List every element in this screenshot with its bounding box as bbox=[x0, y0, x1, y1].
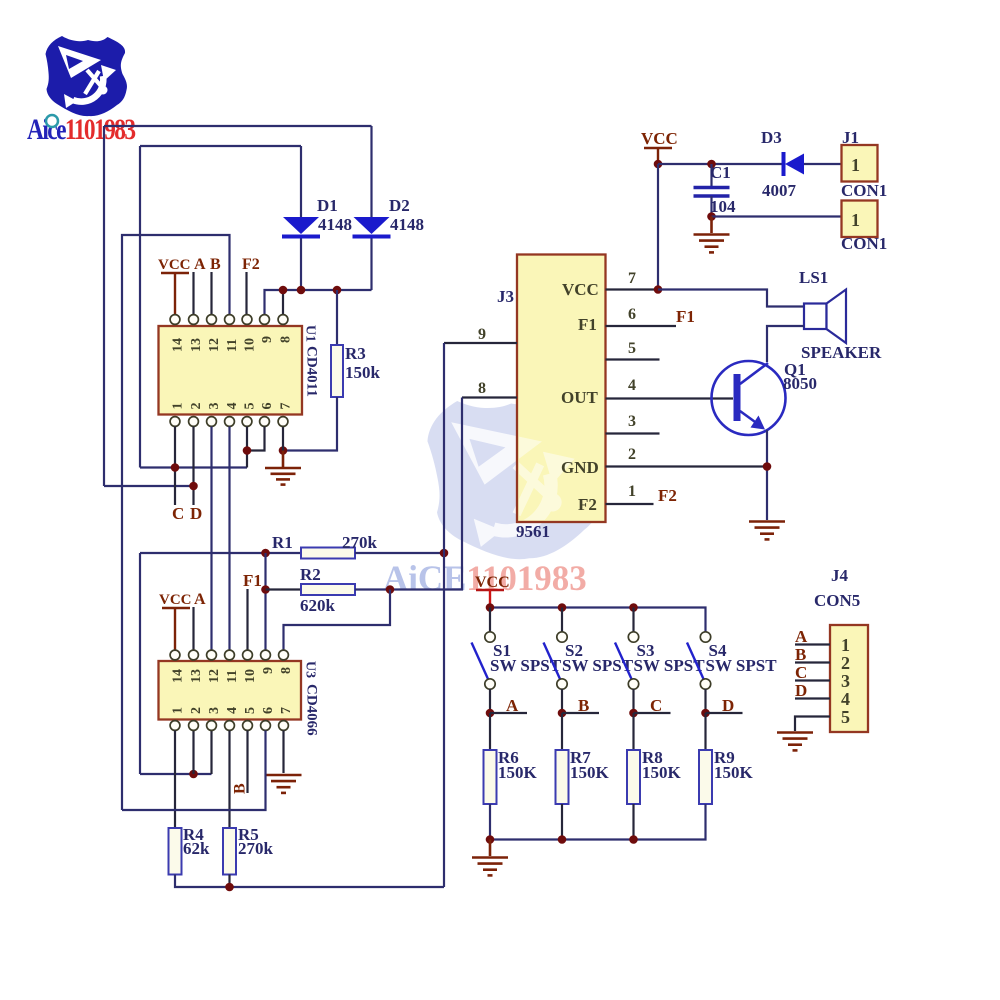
svg-text:B: B bbox=[232, 783, 249, 794]
node junction D bbox=[701, 709, 710, 718]
wire U3 pin3 stub bbox=[210, 731, 212, 775]
svg-text:1: 1 bbox=[851, 210, 860, 230]
svg-text:D2: D2 bbox=[389, 196, 410, 215]
svg-text:R2: R2 bbox=[300, 565, 321, 584]
node junction C1 bottom bbox=[707, 212, 716, 221]
svg-text:5: 5 bbox=[841, 707, 850, 727]
wire U1 pin11 to net-B vertical bbox=[122, 235, 230, 810]
svg-text:3: 3 bbox=[628, 413, 636, 430]
resistor R1 bbox=[301, 548, 355, 559]
wire J3 pin9 line bbox=[444, 342, 517, 344]
IC U1 CD4011 bbox=[159, 315, 303, 427]
node junction A bbox=[486, 709, 495, 718]
wire C1 bottom to J1 lower bbox=[712, 215, 842, 217]
node junction U1 pin1 on net-C bbox=[171, 463, 180, 472]
capacitor C1 bbox=[694, 164, 730, 217]
wire node C tick bbox=[634, 712, 671, 714]
wire J3 pin2 line bbox=[606, 465, 768, 467]
svg-text:J3: J3 bbox=[497, 287, 514, 306]
svg-text:12: 12 bbox=[207, 669, 222, 683]
wire F1 stub to U3 pin10 bbox=[246, 589, 248, 650]
svg-text:2: 2 bbox=[189, 403, 204, 410]
node junction R2 left bbox=[261, 585, 270, 594]
node junction U1 pin7 bbox=[279, 446, 288, 455]
wire U1 pin7 stub bbox=[282, 427, 284, 451]
svg-text:13: 13 bbox=[189, 338, 204, 352]
svg-text:VCC: VCC bbox=[641, 129, 678, 148]
svg-text:1: 1 bbox=[171, 403, 186, 410]
wire S2 to R7 bbox=[561, 713, 563, 750]
svg-text:1: 1 bbox=[628, 483, 636, 500]
svg-text:7: 7 bbox=[279, 403, 294, 410]
svg-text:4007: 4007 bbox=[762, 181, 797, 200]
svg-text:A: A bbox=[194, 256, 206, 273]
svg-text:6: 6 bbox=[628, 306, 636, 323]
svg-text:6: 6 bbox=[261, 707, 276, 714]
svg-text:13: 13 bbox=[189, 669, 204, 683]
logo diymore shield bbox=[46, 36, 128, 116]
svg-text:C: C bbox=[172, 504, 184, 523]
wire node D tick bbox=[706, 712, 743, 714]
svg-text:62k: 62k bbox=[183, 839, 210, 858]
wire D3 to J1 bbox=[804, 163, 842, 165]
IC U3 CD4066 bbox=[159, 650, 302, 730]
wire R8 bottom stub bbox=[632, 804, 634, 840]
svg-text:1: 1 bbox=[851, 155, 860, 175]
node junction C bbox=[629, 709, 638, 718]
svg-text:F1: F1 bbox=[578, 315, 597, 334]
wire R5 bottom stub bbox=[228, 875, 230, 888]
svg-text:14: 14 bbox=[171, 669, 186, 683]
resistor R6 bbox=[484, 750, 497, 804]
wire R1-R2 left vertical to U3 pin9 bbox=[264, 553, 266, 650]
wire R3 top lead bbox=[336, 290, 338, 345]
connector J1 box lower bbox=[842, 201, 878, 238]
svg-text:J1: J1 bbox=[842, 128, 859, 147]
svg-text:VCC: VCC bbox=[475, 574, 510, 591]
wire switch bottom rail bbox=[490, 804, 706, 840]
svg-text:CD4011: CD4011 bbox=[304, 346, 320, 397]
wire S3 to R8 bbox=[632, 713, 634, 750]
resistor R9 bbox=[699, 750, 712, 804]
node junction emitter GND pin2 bbox=[763, 462, 772, 471]
svg-text:150K: 150K bbox=[570, 763, 610, 782]
wire net-C lower horizontal to U1 pins 1,5,6 bbox=[140, 466, 247, 468]
wire S1 to R6 bbox=[489, 713, 491, 750]
wire J3 pin3 line bbox=[606, 432, 660, 434]
wire U1 pin5 stub bbox=[246, 427, 248, 468]
wire J3 pin9 vertical bbox=[443, 343, 445, 887]
wire net-C top horizontal bbox=[140, 145, 301, 147]
svg-text:J4: J4 bbox=[831, 566, 849, 585]
wire R2 left lead bbox=[266, 588, 302, 590]
power VCC symbol top bbox=[641, 129, 678, 164]
svg-text:R3: R3 bbox=[345, 344, 366, 363]
svg-text:14: 14 bbox=[171, 338, 186, 352]
svg-text:B: B bbox=[795, 645, 806, 664]
wire D1 anode vertical bbox=[300, 146, 302, 218]
node junction D1 rail bbox=[297, 286, 306, 295]
svg-text:CON1: CON1 bbox=[841, 234, 887, 253]
svg-text:VCC: VCC bbox=[562, 280, 599, 299]
diode D3 bbox=[782, 152, 805, 176]
svg-text:10: 10 bbox=[243, 669, 258, 683]
node junction rail S2 bbox=[558, 603, 567, 612]
wire net-D lower horizontal bbox=[104, 485, 194, 487]
svg-text:9561: 9561 bbox=[516, 522, 550, 541]
svg-text:9: 9 bbox=[478, 326, 486, 343]
wire U3 pin1 to R4 bbox=[174, 731, 176, 829]
node junction R3 rail bbox=[333, 286, 342, 295]
svg-text:150k: 150k bbox=[345, 363, 381, 382]
svg-text:8: 8 bbox=[478, 380, 486, 397]
svg-text:3: 3 bbox=[841, 671, 850, 691]
svg-text:2: 2 bbox=[189, 707, 204, 714]
node junction C1 top bbox=[707, 160, 716, 169]
resistor R3 bbox=[331, 345, 343, 397]
node junction U1 pins5-6 bbox=[243, 446, 252, 455]
svg-text:3: 3 bbox=[207, 707, 222, 714]
svg-text:OUT: OUT bbox=[561, 388, 599, 407]
svg-text:8050: 8050 bbox=[783, 374, 817, 393]
ground switches bbox=[472, 858, 508, 876]
svg-text:4148: 4148 bbox=[390, 215, 424, 234]
svg-text:8: 8 bbox=[279, 336, 294, 343]
svg-text:8: 8 bbox=[279, 667, 294, 674]
svg-text:B: B bbox=[578, 696, 589, 715]
watermark center logo bbox=[424, 387, 607, 568]
wire R2 right elbow to U3 pin8 bbox=[284, 590, 391, 651]
svg-text:9: 9 bbox=[261, 667, 276, 674]
transistor Q1 bbox=[712, 361, 786, 435]
svg-text:5: 5 bbox=[243, 707, 258, 714]
svg-text:VCC: VCC bbox=[158, 257, 191, 273]
wire U3 pin5 stub to label B bbox=[246, 731, 248, 794]
svg-text:D1: D1 bbox=[317, 196, 338, 215]
wire S4 to R9 bbox=[704, 713, 706, 750]
wire J4 pin3 line bbox=[795, 679, 830, 681]
wire J4 pin1 line bbox=[795, 643, 830, 645]
wire J3 pin1 line bbox=[606, 503, 654, 505]
svg-text:4: 4 bbox=[841, 689, 850, 709]
svg-text:D: D bbox=[795, 681, 807, 700]
node junction U1 pin2 on net-D bbox=[189, 482, 198, 491]
switch S4 bbox=[687, 632, 711, 713]
wire R3 bottom lead to U1 pin7 bbox=[283, 397, 337, 451]
wire node A tick bbox=[490, 712, 527, 714]
svg-text:270k: 270k bbox=[238, 839, 274, 858]
svg-text:11: 11 bbox=[225, 670, 240, 683]
svg-text:270k: 270k bbox=[342, 533, 378, 552]
wire R4 bottom rail bbox=[175, 875, 444, 888]
svg-text:U3: U3 bbox=[303, 661, 318, 678]
svg-text:B: B bbox=[210, 256, 221, 273]
wire U1 pin8 stub bbox=[282, 290, 284, 314]
power VCC symbol U3 bbox=[159, 592, 192, 650]
svg-text:150K: 150K bbox=[498, 763, 538, 782]
svg-text:Aice1101983: Aice1101983 bbox=[27, 112, 136, 145]
wire U1 pin6 stub bbox=[247, 427, 265, 451]
power VCC symbol U1 bbox=[158, 257, 191, 314]
logo globe on i bbox=[46, 115, 58, 127]
svg-text:4: 4 bbox=[628, 377, 636, 394]
wire R1 left lead bbox=[140, 552, 301, 554]
wire U1 pins 8,9 rail to D1,D2,R3 bbox=[265, 290, 372, 314]
svg-text:CON5: CON5 bbox=[814, 591, 860, 610]
wire U1 pin3 to U3 pin12 bbox=[210, 427, 212, 651]
svg-text:SW SPST: SW SPST bbox=[706, 656, 778, 675]
svg-text:7: 7 bbox=[279, 707, 294, 714]
wire net-C left vertical bbox=[139, 146, 141, 468]
wire J3 pin7 line bbox=[606, 288, 659, 290]
svg-text:CD4066: CD4066 bbox=[304, 684, 320, 736]
node junction R2 right bbox=[386, 585, 395, 594]
resistor R5 bbox=[223, 828, 236, 875]
wire D1 cathode vertical bbox=[300, 239, 302, 291]
svg-text:D: D bbox=[190, 504, 202, 523]
node junction VCC top bbox=[654, 160, 663, 169]
wire switch top rail bbox=[490, 608, 706, 633]
wire U3 pins2-3 horizontal bbox=[140, 773, 212, 775]
wire J3 pin4 line to Q1 base bbox=[606, 397, 734, 399]
wire J4 pin4 line bbox=[795, 697, 830, 699]
svg-text:C: C bbox=[650, 696, 662, 715]
switch S2 bbox=[544, 608, 568, 714]
svg-text:2: 2 bbox=[628, 446, 636, 463]
wire A stub bbox=[192, 272, 194, 314]
wire U3 pin4 to R5 bbox=[228, 731, 230, 829]
svg-text:1: 1 bbox=[841, 635, 850, 655]
wire J3 pin8 line bbox=[462, 396, 517, 398]
node junction R5 bottom bbox=[225, 883, 234, 892]
node junction rail R8 bbox=[629, 835, 638, 844]
resistor R7 bbox=[556, 750, 569, 804]
resistor R8 bbox=[627, 750, 640, 804]
svg-text:4148: 4148 bbox=[318, 215, 352, 234]
watermark center text bbox=[383, 558, 587, 599]
svg-text:3: 3 bbox=[207, 403, 222, 410]
svg-text:LS1: LS1 bbox=[799, 268, 828, 287]
node junction J3 pin7 VCC bbox=[654, 285, 663, 294]
wire D2 cathode vertical bbox=[370, 239, 372, 291]
wire U3 pin2 stub bbox=[192, 731, 194, 775]
node junction R1-R2 left bbox=[261, 549, 270, 558]
wire U1 pin2 down to label D bbox=[192, 427, 194, 506]
svg-text:2: 2 bbox=[841, 653, 850, 673]
svg-text:D3: D3 bbox=[761, 128, 782, 147]
svg-text:11: 11 bbox=[225, 339, 240, 352]
svg-text:F1: F1 bbox=[676, 307, 695, 326]
wire VCC to speaker top bbox=[658, 290, 804, 307]
node junction rail S3 bbox=[629, 603, 638, 612]
svg-text:1: 1 bbox=[171, 707, 186, 714]
wire J3 pin6 line bbox=[606, 325, 677, 327]
svg-text:C1: C1 bbox=[710, 163, 731, 182]
node junction U3 pin2 bbox=[189, 770, 198, 779]
diode D1 bbox=[282, 217, 320, 239]
wire R2 right lead to J3 pin8 bbox=[355, 398, 462, 590]
svg-text:5: 5 bbox=[628, 340, 636, 357]
node junction rail R6 bbox=[486, 835, 495, 844]
resistor R4 bbox=[169, 828, 182, 875]
wire ground stub U1 bbox=[282, 451, 285, 468]
speaker LS1 bbox=[804, 290, 846, 344]
svg-text:F1: F1 bbox=[243, 571, 262, 590]
svg-text:A: A bbox=[506, 696, 519, 715]
svg-text:620k: 620k bbox=[300, 596, 336, 615]
wire A stub U3 bbox=[192, 607, 194, 650]
wire ground stub C1 bbox=[710, 217, 713, 234]
wire VCC rail to J1 bbox=[658, 163, 783, 165]
connector J1 box upper bbox=[842, 145, 878, 182]
wire J4 pin2 line bbox=[795, 661, 830, 663]
wire J4 pin5 to ground bbox=[795, 717, 830, 732]
wire net-D top horizontal bbox=[104, 125, 372, 127]
switch S1 bbox=[472, 608, 496, 714]
svg-text:A: A bbox=[795, 627, 808, 646]
resistor R2 bbox=[301, 584, 355, 595]
power VCC symbol switches (red) bbox=[475, 574, 510, 608]
svg-text:12: 12 bbox=[207, 338, 222, 352]
svg-text:CON1: CON1 bbox=[841, 181, 887, 200]
wire R7 bottom stub bbox=[561, 804, 563, 840]
svg-text:F2: F2 bbox=[658, 486, 677, 505]
wire node B tick bbox=[562, 712, 599, 714]
wire B stub bbox=[210, 272, 212, 314]
svg-text:9: 9 bbox=[260, 336, 275, 343]
logo text Aice1101983 bbox=[27, 112, 136, 145]
wire U1 pin4 to U3 pin11 bbox=[228, 427, 230, 651]
node junction pin8 rail bbox=[279, 286, 288, 295]
svg-text:150K: 150K bbox=[642, 763, 682, 782]
wire net-B bottom horizontal to U3 pin6 bbox=[122, 731, 266, 811]
connector J4 box bbox=[830, 625, 868, 732]
wire VCC down to J3 pin7 bbox=[657, 164, 659, 290]
node junction rail R7 bbox=[558, 835, 567, 844]
svg-text:F2: F2 bbox=[578, 495, 597, 514]
wire Q1 emitter down bbox=[766, 430, 768, 520]
svg-text:GND: GND bbox=[561, 458, 599, 477]
ground Q1 bbox=[749, 522, 785, 540]
switch S3 bbox=[615, 608, 639, 714]
svg-text:4: 4 bbox=[225, 707, 240, 714]
svg-text:5: 5 bbox=[243, 403, 258, 410]
wire F2 stub bbox=[245, 272, 247, 314]
wire R1 right lead bbox=[355, 552, 444, 554]
svg-text:SPEAKER: SPEAKER bbox=[801, 343, 882, 362]
svg-text:U1: U1 bbox=[303, 325, 318, 342]
svg-text:VCC: VCC bbox=[159, 592, 192, 608]
wire D2 anode vertical bbox=[370, 126, 372, 218]
node junction B bbox=[558, 709, 567, 718]
node junction R1 right to J3 pin9 bbox=[440, 549, 449, 558]
svg-text:D: D bbox=[722, 696, 734, 715]
svg-text:C: C bbox=[795, 663, 807, 682]
svg-text:150K: 150K bbox=[714, 763, 754, 782]
wire ground stub switches bbox=[489, 840, 492, 857]
ground U3 pin7 bbox=[266, 775, 302, 793]
ground U1 pin7 bbox=[265, 468, 301, 485]
wire U3 pin7 ground stub bbox=[282, 731, 284, 774]
wire net-D left vertical bbox=[103, 126, 105, 486]
svg-text:4: 4 bbox=[225, 403, 240, 410]
svg-text:6: 6 bbox=[260, 403, 275, 410]
IC J3 9561 bbox=[451, 255, 605, 549]
svg-text:7: 7 bbox=[628, 270, 636, 287]
svg-text:F2: F2 bbox=[242, 256, 260, 273]
wire R1 left vertical down to U3 pins2-3 bbox=[139, 553, 141, 774]
svg-text:R1: R1 bbox=[272, 533, 293, 552]
svg-text:A: A bbox=[194, 591, 206, 608]
ground C1 bbox=[694, 235, 730, 253]
diode D2 bbox=[353, 217, 391, 239]
ground J4 bbox=[777, 733, 813, 751]
node junction rail S1 bbox=[486, 603, 495, 612]
svg-text:10: 10 bbox=[243, 338, 258, 352]
wire speaker bottom to Q1 collector bbox=[767, 326, 804, 362]
wire U1 pin1 down to label C bbox=[174, 427, 176, 506]
wire J3 pin5 line bbox=[606, 358, 660, 360]
